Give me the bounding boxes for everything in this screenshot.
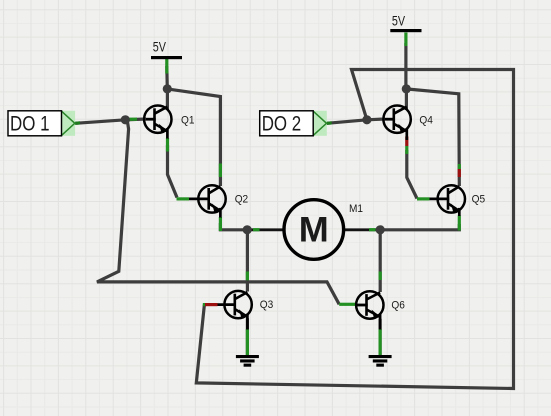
svg-text:Q5: Q5: [472, 194, 486, 206]
pin Q2 collector (green): [219, 164, 222, 178]
pin DO1 output tip (green): [75, 121, 80, 125]
pin Q2 emitter (green): [219, 217, 222, 231]
transistor Q5: [430, 185, 465, 216]
node D: 5V-right junction: [402, 84, 411, 93]
pin Q5 collector (red): [458, 169, 461, 177]
pin motor right (green): [369, 228, 376, 231]
svg-text:DO 1: DO 1: [10, 111, 50, 136]
pin Q4 emitter (red): [405, 137, 408, 147]
wire 5V right pin down to junction D: [404, 43, 407, 89]
svg-text:M: M: [299, 210, 329, 249]
pin Q6 base (green): [339, 303, 355, 306]
wire junction B to Q2 collector: [167, 89, 220, 186]
wire Q2 emitter to motor-left junction: [220, 223, 247, 230]
pin Q4 emitter wire end (green): [405, 146, 408, 154]
pin Q5 collector wire end (green): [458, 164, 461, 169]
wire DO1 output to junction A: [75, 120, 125, 124]
svg-text:Q3: Q3: [260, 299, 274, 311]
wire motor-left junction to motor left pin: [247, 228, 284, 231]
wire Q3 emitter to ground: [246, 318, 249, 355]
svg-text:5V: 5V: [392, 13, 406, 29]
wire junction A to Q1 base: [125, 117, 146, 121]
wire 5V left pin to junction B: [165, 66, 169, 89]
pin Q5 emitter (green): [458, 216, 461, 231]
svg-text:5V: 5V: [153, 40, 167, 56]
transistor Q4: [383, 106, 410, 141]
svg-text:M1: M1: [349, 203, 363, 215]
power 5V left: [151, 40, 182, 60]
pin Q5 base (green): [417, 197, 430, 200]
pin Q1 emitter (green): [166, 138, 169, 152]
wire motor-right junction to motor right pin: [344, 228, 380, 231]
wire junction B to Q1 collector: [166, 89, 169, 110]
node B: 5V-left junction: [163, 84, 172, 93]
wire motor-left junction down to Q3 collector: [246, 230, 249, 292]
node E: motor-left junction: [243, 225, 252, 234]
wire junction C to Q4 base: [367, 117, 385, 121]
pin DO2 output tip (green): [327, 121, 332, 125]
pin 5V-right (green): [404, 33, 407, 47]
pin Q3 collector (green): [246, 272, 249, 281]
wire junction D to Q5 collector: [406, 89, 459, 186]
wire DO1 loop: junction A down-left-bottom to Q6 base: [97, 121, 339, 305]
pin Q2 base (green): [177, 197, 190, 200]
transistor Q2: [189, 185, 226, 217]
svg-text:DO 2: DO 2: [262, 111, 302, 136]
node F: motor-right junction: [376, 225, 385, 234]
wire Q4 emitter to Q5 base: [407, 150, 417, 199]
ground below Q3: [236, 355, 259, 367]
node C: DO2/Q4 base junction: [362, 115, 371, 124]
wire Q5 emitter to motor-right junction: [380, 224, 459, 230]
ground below Q6: [369, 355, 392, 367]
wire Q3 base loop from DO2: diagonal + bottom run: [196, 70, 513, 389]
pin Q3 base (red): [204, 303, 217, 306]
svg-text:Q1: Q1: [181, 115, 195, 127]
pin Q6 emitter + ground pin (green): [379, 329, 382, 356]
wire junction D to Q4 collector: [405, 89, 408, 110]
svg-text:Q6: Q6: [391, 300, 405, 312]
wire DO2 output to junction C: [327, 120, 367, 124]
transistor Q6: [355, 291, 383, 329]
pin Q3 emitter + ground pin (green): [246, 329, 249, 356]
pin Q3 base wire end (green dot): [203, 303, 205, 306]
transistor Q1: [144, 106, 171, 139]
node A: DO1/Q1 base junction: [121, 115, 130, 124]
pin Q6 collector (green): [379, 272, 382, 281]
power 5V right: [390, 13, 421, 32]
transistor Q3: [218, 291, 252, 330]
wire motor-right junction down to Q6 collector: [379, 230, 382, 292]
wire Q1 emitter to Q2 base: [168, 145, 178, 198]
pin motor left (green): [253, 228, 260, 231]
pin Q1 base end (green): [128, 118, 137, 121]
pin 5V-left (green): [165, 59, 168, 74]
wire Q6 emitter to ground: [379, 319, 382, 355]
svg-text:Q2: Q2: [235, 194, 249, 206]
svg-text:Q4: Q4: [419, 115, 433, 127]
